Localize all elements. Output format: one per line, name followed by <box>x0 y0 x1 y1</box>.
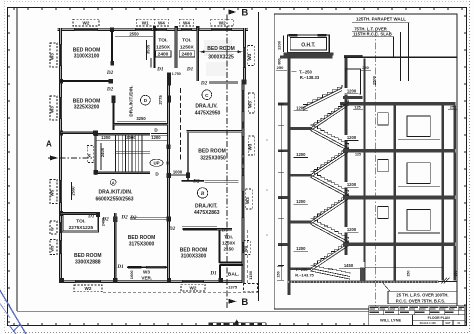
svg-text:D2: D2 <box>192 178 200 184</box>
plan lower right wall <box>241 84 244 283</box>
window W3 ver wall <box>146 266 166 269</box>
stair tower right wall <box>345 58 348 255</box>
staircase hall walls <box>95 133 150 135</box>
window W1 top wall <box>135 28 152 31</box>
wall toilet1 left vertical <box>154 28 156 68</box>
svg-text:3175X3000: 3175X3000 <box>129 241 155 247</box>
svg-text:W3: W3 <box>248 101 253 108</box>
leader lines parapet <box>408 23 410 81</box>
svg-text:BED ROOM: BED ROOM <box>180 247 208 253</box>
centerline dash-dot <box>375 30 377 308</box>
svg-text:1450: 1450 <box>344 263 354 268</box>
window W2 bottom wall bed3300 <box>75 280 101 283</box>
svg-text:O.H.T.: O.H.T. <box>301 42 316 48</box>
svg-text:250: 250 <box>277 65 284 70</box>
svg-text:150: 150 <box>277 271 281 277</box>
marker B bottom <box>229 299 237 304</box>
label W5 left4 <box>50 240 58 255</box>
floor level 0 walls and windows <box>363 106 365 149</box>
dim texts 1200 right column <box>344 88 360 94</box>
slab stub left of stair 3 <box>278 243 288 246</box>
label W3 left2 <box>50 96 58 120</box>
label W3 right1b <box>248 93 255 113</box>
wall bed3050 bottom and D2 opening <box>182 180 205 182</box>
svg-text:D1: D1 <box>116 264 124 270</box>
window W3 right wall bedroom3 <box>243 47 246 68</box>
svg-text:D1: D1 <box>186 66 194 72</box>
svg-text:SHT: SHT <box>445 321 451 325</box>
svg-text:BED ROOM: BED ROOM <box>73 47 101 53</box>
svg-text:BED ROOM: BED ROOM <box>198 149 226 155</box>
svg-text:T.−250: T.−250 <box>295 267 308 272</box>
plan outer top wall <box>58 28 249 31</box>
window W3 right wall bed3050 <box>241 136 244 155</box>
dashed bal right outline <box>246 230 248 283</box>
ground break symbol <box>442 278 450 284</box>
wall bedroom1 bottom horizontal <box>61 80 110 82</box>
door leaf stair hall <box>151 132 167 134</box>
svg-text:2000: 2000 <box>126 135 136 140</box>
svg-text:W3: W3 <box>143 269 150 274</box>
flight down band 2 <box>311 222 349 242</box>
wall kitchen toilet top horizontal <box>61 212 96 214</box>
big window floor 1 <box>407 163 430 184</box>
svg-text:D2: D2 <box>106 70 114 76</box>
svg-text:W3: W3 <box>50 53 55 60</box>
svg-text:D1: D1 <box>209 270 217 276</box>
section drawing frame <box>274 14 457 309</box>
svg-text:W3: W3 <box>248 143 253 150</box>
svg-text:3100X3300: 3100X3300 <box>181 254 207 260</box>
window W2 top wall bedroom3 <box>211 28 232 31</box>
svg-text:W1: W1 <box>142 20 149 25</box>
svg-text:BED ROOM: BED ROOM <box>74 253 102 259</box>
svg-text:3225X3200: 3225X3200 <box>74 105 100 111</box>
title block outer <box>369 306 465 326</box>
svg-text:1000: 1000 <box>173 169 183 174</box>
svg-text:FLOOR PLAN: FLOOR PLAN <box>428 316 451 320</box>
label W5 left3 <box>50 180 58 204</box>
label W3 right1c <box>248 136 255 155</box>
ground floor lintel line <box>365 266 444 268</box>
floor level 1 walls and windows <box>353 149 456 153</box>
svg-text:W5: W5 <box>50 245 55 252</box>
svg-text:D2: D2 <box>200 80 208 86</box>
title block FLOOR PLAN cell <box>413 315 466 320</box>
door leaf liv <box>209 81 238 83</box>
svg-text:1200: 1200 <box>347 182 357 187</box>
wall toilet2 right vertical <box>197 28 199 81</box>
svg-text:D1: D1 <box>156 66 164 72</box>
big window floor 2 <box>407 210 430 231</box>
OHT tank <box>288 35 330 53</box>
footing right pier <box>360 268 364 281</box>
label W2 top left <box>73 19 99 26</box>
svg-text:1200: 1200 <box>296 246 306 251</box>
svg-text:1250X: 1250X <box>156 45 171 51</box>
svg-text:1200: 1200 <box>347 227 357 232</box>
wall ver area horizontal <box>127 267 168 269</box>
svg-text:DRA./KIT./DIN.: DRA./KIT./DIN. <box>129 85 134 116</box>
svg-text:3225X3050: 3225X3050 <box>200 156 226 162</box>
circle C marker <box>202 90 212 100</box>
window W4 top wall left <box>156 28 167 31</box>
svg-text:4475X2863: 4475X2863 <box>194 210 220 216</box>
svg-text:25: 25 <box>450 106 454 110</box>
svg-text:DRA./KIT.: DRA./KIT. <box>195 203 218 209</box>
main spine wall vertical <box>167 86 170 282</box>
title block row1 cells <box>369 306 379 311</box>
UP label ellipse <box>150 159 163 166</box>
stair flights <box>303 85 350 279</box>
svg-text:3250: 3250 <box>136 116 146 121</box>
wall liv bottom thick horizontal <box>187 130 242 133</box>
dim arrow line bedroom3 <box>200 51 243 53</box>
window W left wall toi <box>59 222 62 233</box>
svg-text:BED ROOM: BED ROOM <box>73 98 101 104</box>
svg-text:D2: D2 <box>120 215 128 221</box>
left wall junction blocks <box>59 79 63 84</box>
flight down band 0 <box>311 128 349 148</box>
window W3 right wall liv <box>241 191 244 218</box>
floor level 3 walls and windows <box>353 242 456 246</box>
svg-text:TOI.: TOI. <box>224 234 233 239</box>
svg-text:TOI.: TOI. <box>182 38 191 44</box>
flight up band 2 <box>311 196 349 221</box>
svg-text:1200: 1200 <box>151 135 161 140</box>
ghost eraser marks plan bedroom3 <box>204 40 232 56</box>
window W3 right wall mid <box>241 168 244 176</box>
slab stubs into stair right <box>343 149 353 153</box>
stair treads <box>116 135 142 171</box>
svg-text:1200: 1200 <box>347 135 357 140</box>
stair mid rails <box>116 151 151 153</box>
svg-text:A: A <box>112 181 115 185</box>
svg-text:D2: D2 <box>106 87 114 93</box>
section line B-B vertical dash <box>226 15 228 310</box>
plan outer right wall upper <box>243 28 246 84</box>
stair dim line 1200 2000 1200 <box>96 140 167 142</box>
window W5 left wall kitchen <box>59 180 62 203</box>
wall bedroom2 right vertical <box>112 98 114 130</box>
label W2 bottom right <box>181 284 205 291</box>
svg-text:W: W <box>50 227 55 231</box>
label W1b top <box>154 19 168 26</box>
window W3 left wall bedroom2 <box>59 97 62 119</box>
stair shaft window rect <box>345 69 360 94</box>
svg-text:R.−138.33: R.−138.33 <box>300 75 320 80</box>
wall kitchen bottom-left toilet box <box>62 214 99 233</box>
window W4 right wall toi <box>241 242 244 253</box>
svg-text:W2: W2 <box>83 20 90 25</box>
door leaf toi1 <box>149 58 151 68</box>
flight up band 1 <box>311 149 349 174</box>
window W4 top wall mid <box>181 28 192 31</box>
tank platform slabs <box>284 53 334 56</box>
svg-text:W2: W2 <box>219 20 226 25</box>
dashed line under plan <box>103 291 252 293</box>
svg-text:1250X: 1250X <box>180 45 195 51</box>
svg-text:125: 125 <box>355 152 361 156</box>
svg-text:W3: W3 <box>247 53 252 60</box>
circle D marker <box>141 95 151 105</box>
svg-text:W2: W2 <box>85 286 92 291</box>
label W3 left1 <box>50 43 58 67</box>
svg-text:125: 125 <box>354 106 360 110</box>
svg-text:D2: D2 <box>168 226 176 232</box>
svg-text:SCALE 1:100: SCALE 1:100 <box>420 321 437 325</box>
label W3 right1 <box>247 46 254 66</box>
dim 3250 <box>117 121 166 123</box>
inner margin frame <box>16 7 18 311</box>
slab stub left of stair 2 <box>278 196 288 199</box>
svg-text:800: 800 <box>278 58 282 64</box>
wall kitchenB bottom horizontal <box>183 228 232 230</box>
svg-text:1000: 1000 <box>129 270 134 280</box>
label W2 bottom left <box>74 285 102 292</box>
left dimension line vertical <box>280 104 282 280</box>
plan outer bottom wall <box>59 280 244 283</box>
leader ground to note <box>383 283 390 291</box>
svg-text:TOI.: TOI. <box>76 218 85 224</box>
svg-text:1200: 1200 <box>277 40 282 50</box>
svg-text:2150: 2150 <box>223 246 234 251</box>
boundary line right of plan <box>258 12 260 301</box>
label W left toi <box>50 221 58 234</box>
window W2 bottom wall bed3100 <box>182 280 204 283</box>
wall bed3050 left vertical <box>187 131 189 181</box>
landing top right <box>343 96 362 99</box>
svg-text:125TH. PARAPET WALL: 125TH. PARAPET WALL <box>356 17 406 22</box>
circle B marker <box>197 188 207 198</box>
wall toilet2150 bottom <box>220 262 242 264</box>
window W3 right wall c-room <box>241 90 244 112</box>
svg-text:1.750: 1.750 <box>172 72 181 76</box>
stair landings left <box>291 127 312 130</box>
door D2 opening bed3100 top <box>182 226 217 228</box>
svg-text:4475X2950: 4475X2950 <box>195 110 221 116</box>
top flight to tank platform <box>303 88 342 108</box>
svg-text:BED ROOM: BED ROOM <box>207 46 235 52</box>
wall bedroom1 right vertical <box>111 30 113 65</box>
svg-text:R.−143.75: R.−143.75 <box>295 272 314 277</box>
svg-text:6600X2550/2563: 6600X2550/2563 <box>95 196 133 202</box>
svg-text:A: A <box>46 140 52 149</box>
window W3 left wall bedroom1 <box>59 44 62 66</box>
flight down band 3 <box>311 268 350 276</box>
svg-text:W3: W3 <box>245 197 250 204</box>
wall toilet2150 left vertical <box>219 230 221 263</box>
svg-text:75TH. L.T. OVER: 75TH. L.T. OVER <box>354 26 387 31</box>
label W4 top <box>179 19 193 26</box>
roof slab right building <box>340 102 456 106</box>
svg-text:2550: 2550 <box>129 31 139 36</box>
balcony walls <box>220 264 243 266</box>
flight up band 3 <box>311 243 349 268</box>
svg-text:DRA./LIV.: DRA./LIV. <box>195 104 218 110</box>
small window floor 0 <box>378 113 388 125</box>
svg-text:250: 250 <box>362 65 369 70</box>
svg-text:2400: 2400 <box>158 52 169 58</box>
stair tower left wall <box>288 56 291 295</box>
parapet top line right <box>344 56 457 58</box>
svg-text:W4: W4 <box>183 20 190 25</box>
svg-text:1150: 1150 <box>248 270 253 279</box>
svg-text:DRA./KIT./DIN.: DRA./KIT./DIN. <box>99 190 134 196</box>
door D1 ver leaf <box>128 265 142 267</box>
svg-text:2550: 2550 <box>70 186 75 196</box>
svg-text:1200: 1200 <box>296 105 306 110</box>
window W5 left wall bedroom 3300 <box>59 240 62 254</box>
dim 2550 top <box>115 36 153 38</box>
label W3 right2 <box>245 189 252 209</box>
upper wall left of right building <box>363 59 365 103</box>
right wall pier blocks <box>241 122 244 129</box>
svg-text:1200: 1200 <box>296 152 306 157</box>
svg-text:1200: 1200 <box>347 88 357 93</box>
scale bar bottom ruler <box>209 323 213 326</box>
svg-text:WILL LYNE: WILL LYNE <box>380 318 401 323</box>
svg-text:D2: D2 <box>129 215 137 221</box>
svg-text:3000X3225: 3000X3225 <box>208 54 234 60</box>
bottom notes LPS PCC <box>388 291 457 304</box>
svg-text:B: B <box>241 297 248 308</box>
section line A-A dash <box>48 157 94 159</box>
svg-text:350: 350 <box>454 271 458 277</box>
flight down band 1 <box>311 175 349 195</box>
dim 1450 bottom <box>340 262 365 268</box>
svg-text:BED ROOM: BED ROOM <box>128 235 156 241</box>
title block row2 cells <box>369 310 384 314</box>
svg-text:P.C.C. OVER 75TH. B.F.S.: P.C.C. OVER 75TH. B.F.S. <box>396 298 445 303</box>
wall kitchenD bottom horizontal <box>114 123 169 125</box>
svg-text:B: B <box>241 7 248 18</box>
wall bed3300-3175 divider vertical <box>114 213 116 281</box>
slab stub left of stair 1 <box>278 149 288 152</box>
blue pen scribble <box>0 287 26 334</box>
svg-text:115TH R.C.C. SLAB: 115TH R.C.C. SLAB <box>353 32 392 37</box>
flight up band 0 <box>311 103 349 128</box>
plan outer left wall <box>59 28 62 283</box>
label W4 right <box>243 241 250 255</box>
small window floor 2 <box>378 206 388 218</box>
svg-text:3300X2888: 3300X2888 <box>75 259 101 265</box>
big window floor 0 <box>407 116 430 137</box>
window W2 top wall bedroom1 <box>74 28 98 31</box>
svg-text:W5: W5 <box>50 189 55 196</box>
svg-text:3775: 3775 <box>158 95 163 105</box>
svg-text:T.−250: T.−250 <box>299 70 312 75</box>
svg-text:W: W <box>86 153 91 157</box>
small window floor 1 <box>378 160 388 172</box>
svg-text:1250X: 1250X <box>222 240 236 245</box>
svg-text:W4: W4 <box>158 20 165 25</box>
svg-text:D1: D1 <box>87 213 95 219</box>
circled 4 marker <box>110 179 116 185</box>
svg-text:W3: W3 <box>50 106 55 113</box>
svg-text:1200: 1200 <box>101 135 111 140</box>
svg-text:UP: UP <box>153 161 159 166</box>
svg-text:BAL.: BAL. <box>228 271 239 277</box>
svg-text:25 TH. L.P.S. OVER 100TH.: 25 TH. L.P.S. OVER 100TH. <box>396 292 448 297</box>
bottom wall junction blocks <box>59 278 64 283</box>
svg-text:W2: W2 <box>190 285 197 290</box>
top wall junction blocks <box>110 27 114 32</box>
label W2 top right <box>211 19 234 26</box>
label W ver stair left <box>86 146 93 163</box>
column line dash vertical <box>180 88 182 160</box>
floor level 2 walls and windows <box>353 196 456 200</box>
svg-text:1375: 1375 <box>228 284 238 289</box>
svg-text:1200: 1200 <box>296 199 306 204</box>
svg-text:3100X3100: 3100X3100 <box>74 54 100 60</box>
svg-text:TOI.: TOI. <box>158 38 167 44</box>
label W1 top <box>136 19 154 26</box>
svg-text:250: 250 <box>407 271 411 277</box>
svg-text:2400: 2400 <box>181 52 192 58</box>
title block WILL LYNE cell <box>369 315 413 326</box>
title block bottom right cells <box>413 320 444 325</box>
wall bedroom2 bottom horizontal <box>61 132 93 134</box>
ground line hatched <box>288 280 439 283</box>
svg-text:D2: D2 <box>101 216 109 222</box>
slab stub left of stair 0 <box>278 103 288 106</box>
svg-text:2275X1225: 2275X1225 <box>69 225 94 231</box>
svg-text:D1: D1 <box>221 227 229 233</box>
svg-text:VER.: VER. <box>141 276 152 281</box>
marker B top <box>229 10 237 15</box>
svg-text:B: B <box>200 191 205 197</box>
entrance door jamb block <box>167 72 171 85</box>
wall toilet divider vertical <box>175 28 178 68</box>
